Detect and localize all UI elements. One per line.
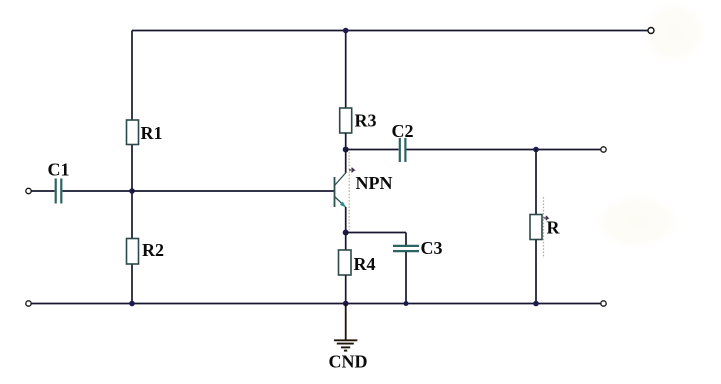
selection dash line load xyxy=(543,197,545,258)
wire R4 to bottom rail xyxy=(345,275,347,304)
terminal bottom right xyxy=(601,301,606,306)
terminal output right xyxy=(601,147,606,152)
terminal top right xyxy=(648,28,654,34)
node base-divider junction xyxy=(129,188,135,194)
capacitor C3 xyxy=(393,238,443,258)
wire C1 to base node xyxy=(63,190,133,192)
svg-text:C1: C1 xyxy=(48,160,70,180)
wire C2 to output xyxy=(407,149,602,151)
svg-text:R4: R4 xyxy=(354,254,376,274)
svg-text:C2: C2 xyxy=(392,121,414,141)
watermark blob right middle xyxy=(595,195,679,249)
svg-text:CND: CND xyxy=(329,352,368,372)
svg-text:R1: R1 xyxy=(141,123,163,143)
node emitter junction xyxy=(343,230,349,236)
resistor R2 xyxy=(127,239,165,265)
wire load vertical top xyxy=(535,150,537,215)
resistor R load xyxy=(530,215,561,240)
node top rail junction xyxy=(343,28,349,34)
wire node to transistor base xyxy=(132,190,335,192)
wire C3 bottom lead xyxy=(405,252,407,304)
node bottom load xyxy=(533,301,539,307)
wire emitter node to R4 xyxy=(345,233,347,251)
wire collector node to C2 xyxy=(346,149,399,151)
transistor Q1 NPN xyxy=(335,173,393,208)
wire input to C1 xyxy=(32,190,55,192)
wire collector vertical from top rail xyxy=(345,31,347,109)
selection dash line transistor xyxy=(348,152,350,230)
wire emitter to node xyxy=(345,207,347,233)
ground xyxy=(329,304,368,372)
svg-text:R: R xyxy=(547,218,561,238)
wire load vertical bottom xyxy=(535,240,537,304)
resistor R3 xyxy=(340,108,377,133)
svg-text:R2: R2 xyxy=(142,240,164,260)
watermark blob top right xyxy=(642,2,706,64)
svg-text:R3: R3 xyxy=(355,111,377,131)
resistor R1 xyxy=(127,120,163,145)
wire left vertical branch xyxy=(131,31,133,304)
wire C3 top lead xyxy=(405,233,407,246)
svg-text:NPN: NPN xyxy=(356,173,393,193)
wire emitter node to C3 xyxy=(346,232,406,234)
pin marker load xyxy=(544,216,549,220)
node bottom left divider xyxy=(129,301,135,307)
resistor R4 xyxy=(339,250,376,275)
svg-text:C3: C3 xyxy=(421,238,443,258)
terminal input left xyxy=(26,188,31,193)
capacitor C2 xyxy=(392,121,414,162)
node bottom C3 xyxy=(404,301,409,306)
node collector junction xyxy=(343,147,349,153)
wire collector node down to transistor xyxy=(345,150,347,174)
wire bottom rail xyxy=(32,303,602,305)
wire top rail xyxy=(132,30,648,32)
capacitor C1 xyxy=(48,160,70,204)
pin marker collector xyxy=(349,168,354,172)
terminal bottom left xyxy=(26,301,31,306)
wire R3 to collector node xyxy=(345,133,347,150)
node load junction top xyxy=(533,147,539,153)
node bottom emitter xyxy=(343,301,349,307)
